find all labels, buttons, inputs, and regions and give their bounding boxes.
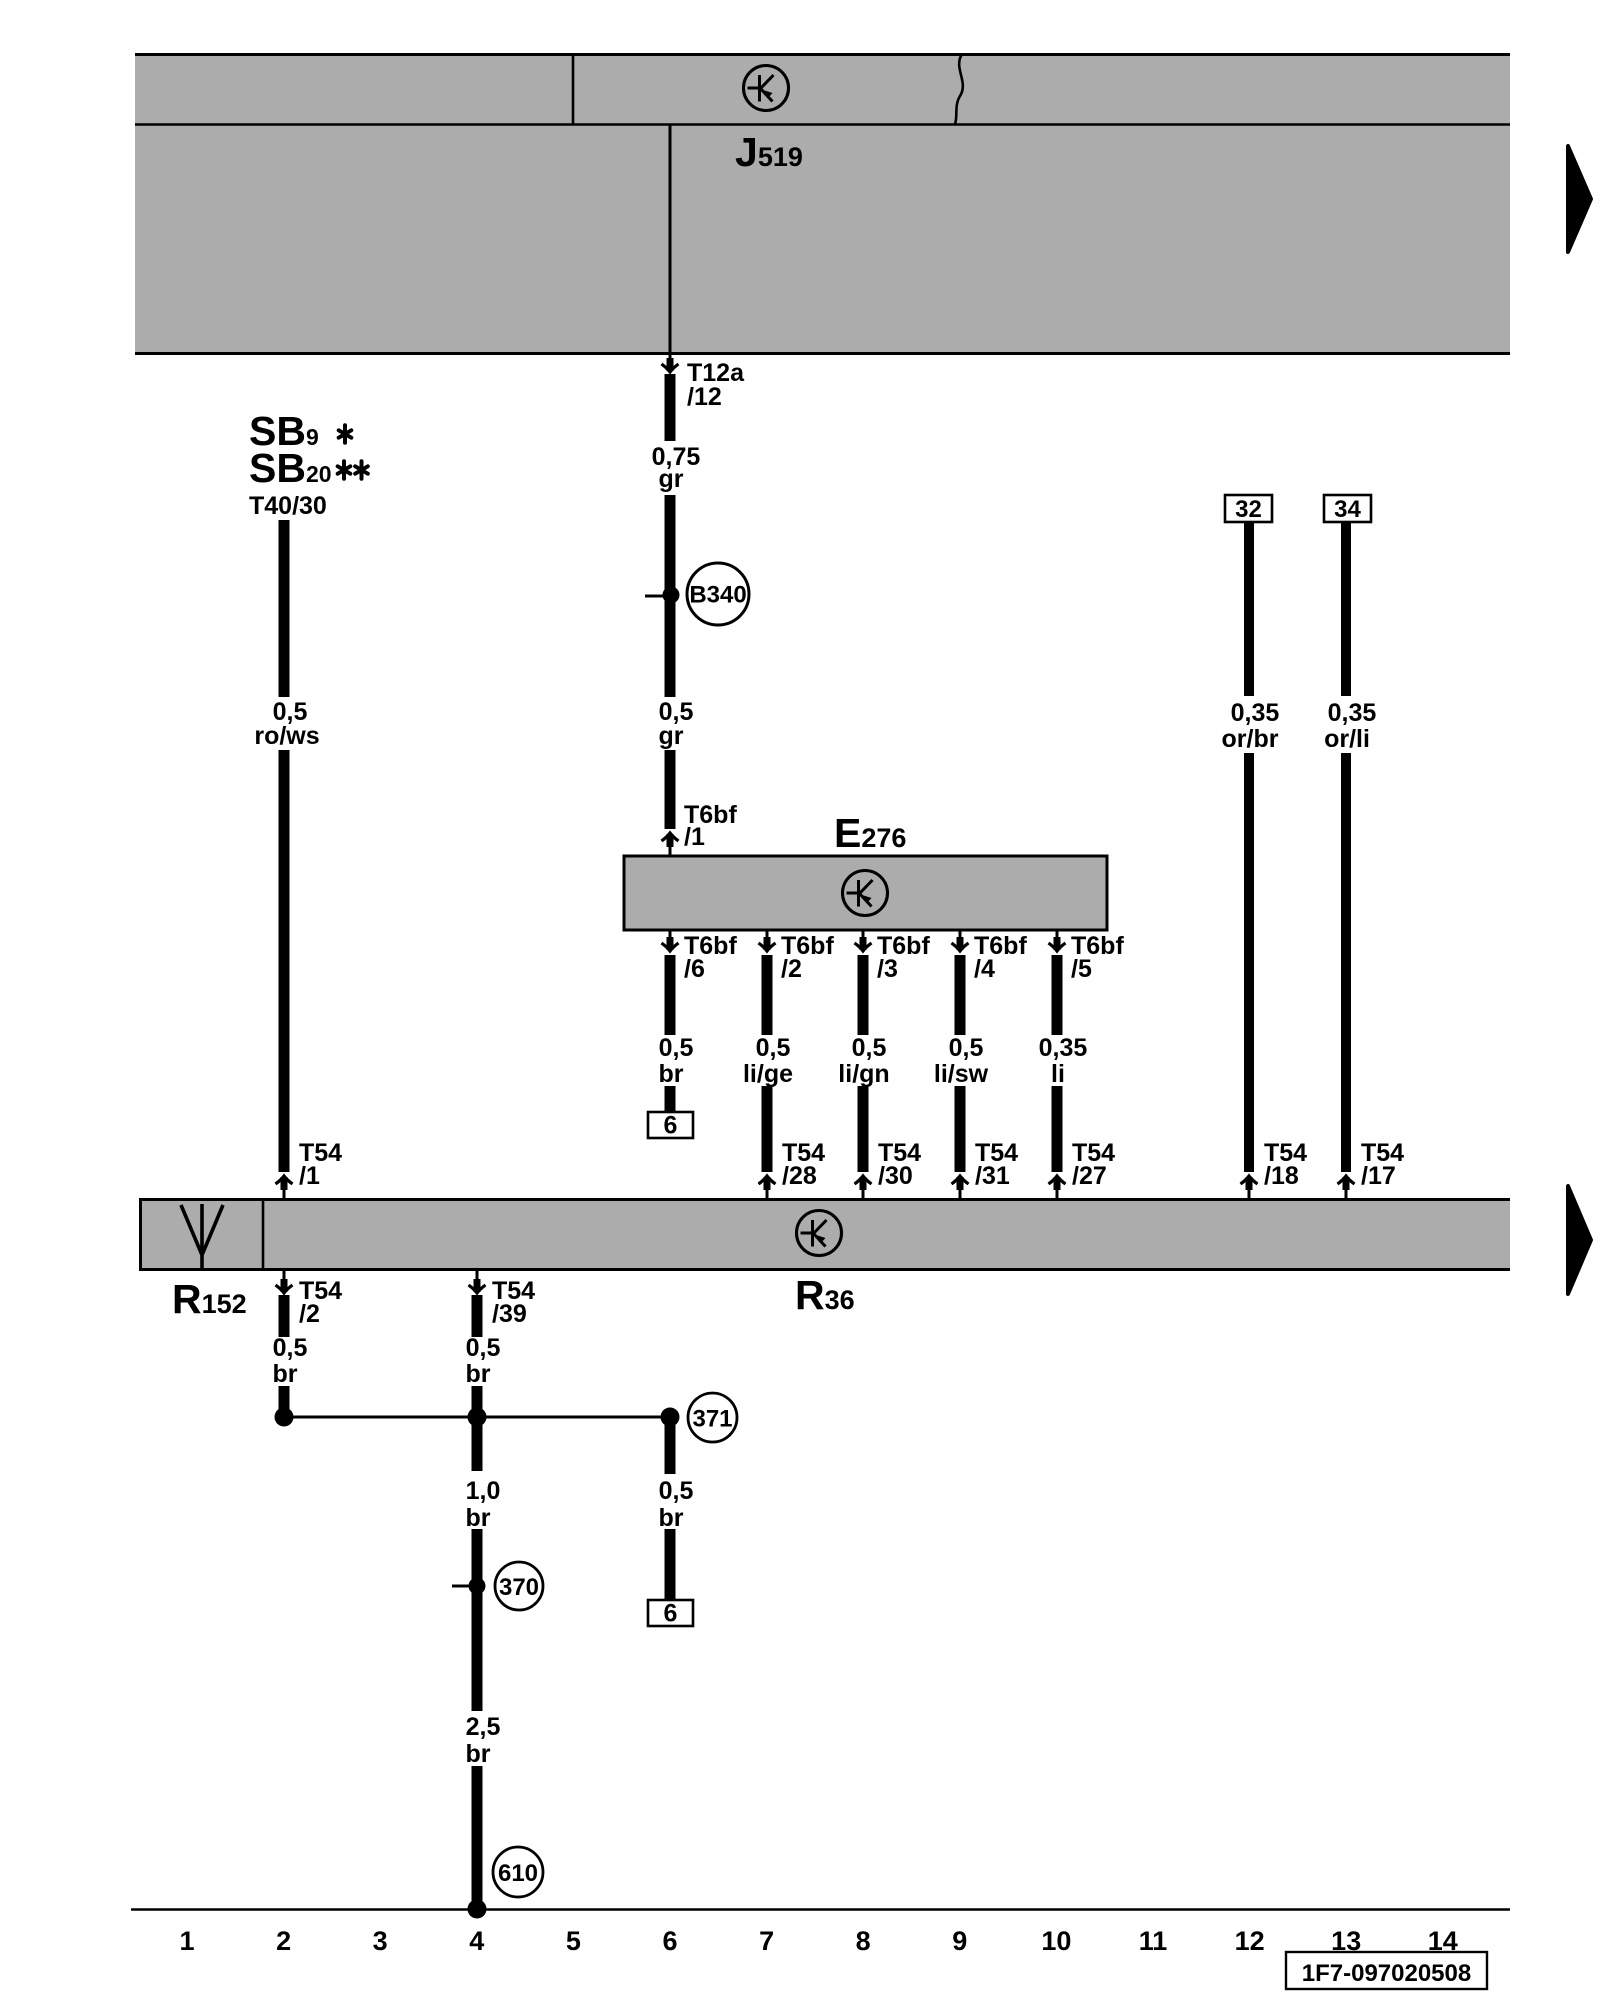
svg-text:li: li — [1051, 1060, 1065, 1088]
wire 0,5 br (right of 371, lower) — [665, 1529, 676, 1600]
pin T6bf/4 — [959, 930, 962, 938]
svg-text:li/sw: li/sw — [934, 1060, 989, 1088]
junction dot left — [275, 1408, 294, 1427]
svg-text:371: 371 — [692, 1406, 732, 1433]
svg-text:gr: gr — [659, 722, 684, 750]
svg-text:/4: /4 — [974, 955, 995, 983]
svg-text:0,5: 0,5 — [659, 1477, 694, 1505]
terminal 34 — [1324, 495, 1371, 522]
svg-text:6: 6 — [662, 1926, 677, 1956]
pin T6bf/5 — [1056, 930, 1059, 938]
right arrow (bottom) — [1568, 1186, 1591, 1294]
svg-text:3: 3 — [373, 1926, 388, 1956]
svg-text:7: 7 — [759, 1926, 774, 1956]
svg-text:6: 6 — [664, 1600, 678, 1628]
pin T54/39 (below R36) — [476, 1271, 479, 1281]
svg-text:2,5: 2,5 — [466, 1713, 501, 1741]
wire 0,5 li/sw — [955, 955, 966, 1035]
pin T6bf/1 (into E276) — [662, 833, 679, 847]
wire 0,35 li — [1052, 955, 1063, 1035]
wire 0,5 li/ge — [762, 955, 773, 1035]
svg-text:/31: /31 — [975, 1162, 1010, 1190]
svg-text:2: 2 — [276, 1926, 291, 1956]
wire 0,5 br (left, lower) — [279, 1386, 290, 1417]
pin T12a/12 — [662, 358, 679, 372]
svg-text:E276: E276 — [834, 810, 906, 856]
junction dot right — [661, 1408, 680, 1427]
svg-text:12: 12 — [1235, 1926, 1265, 1956]
wire 0,5 br (middle, upper) — [472, 1295, 483, 1337]
svg-text:10: 10 — [1041, 1926, 1071, 1956]
ground connection 610 — [493, 1847, 543, 1897]
wire 0,5 li/gn — [858, 955, 869, 1035]
junction dot on bottom line — [468, 1900, 487, 1919]
svg-text:br: br — [273, 1360, 298, 1388]
wire inside J519 from header to pin T12a — [669, 125, 672, 364]
svg-text:1F7-097020508: 1F7-097020508 — [1302, 1960, 1471, 1987]
svg-text:B340: B340 — [689, 582, 746, 609]
right arrow (top) — [1568, 146, 1591, 252]
svg-text:br: br — [466, 1740, 491, 1768]
svg-text:0,5: 0,5 — [949, 1034, 984, 1062]
svg-text:br: br — [466, 1360, 491, 1388]
control module J519 box — [135, 53, 1510, 355]
terminal 32 — [1225, 495, 1272, 522]
ground terminal 6 (lower) — [648, 1600, 693, 1626]
ground connection 370 — [495, 1562, 543, 1610]
svg-text:or/br: or/br — [1222, 725, 1279, 753]
pin T54/27 — [1049, 1176, 1066, 1190]
svg-text:/2: /2 — [299, 1300, 320, 1328]
svg-text:1,0: 1,0 — [466, 1477, 501, 1505]
wire 0,5 br (right of 371, upper) — [665, 1417, 676, 1474]
connection symbol (circle-K) in E276 — [843, 871, 888, 916]
wire 0,5 br (left, upper) — [279, 1295, 290, 1337]
svg-text:/18: /18 — [1264, 1162, 1299, 1190]
pin T6bf/3 — [862, 930, 865, 938]
wire 0,35 or/li (lower) — [1341, 753, 1351, 1172]
wire 0,5 br (middle, lower) — [472, 1386, 483, 1417]
svg-text:5: 5 — [566, 1926, 581, 1956]
wire 0,75 gr (upper segment) — [665, 374, 676, 441]
svg-text:/17: /17 — [1361, 1162, 1396, 1190]
svg-text:0,35: 0,35 — [1231, 699, 1280, 727]
pin T54/17 — [1338, 1176, 1355, 1190]
pin T54/1 (left column into R36) — [276, 1176, 293, 1190]
junction dot middle — [468, 1408, 487, 1427]
svg-text:br: br — [466, 1504, 491, 1532]
svg-text:ro/ws: ro/ws — [254, 722, 319, 750]
svg-text:/39: /39 — [492, 1300, 527, 1328]
pin T6bf/2 — [766, 930, 769, 938]
svg-text:T40/30: T40/30 — [249, 492, 327, 520]
svg-text:li/ge: li/ge — [743, 1060, 793, 1088]
break squiggle in J519 header — [955, 54, 963, 124]
connection symbol (circle-K) in R36 — [797, 1211, 842, 1256]
aerial amplifier R36 box — [139, 1198, 1510, 1271]
svg-text:0,5: 0,5 — [756, 1034, 791, 1062]
svg-text:0,35: 0,35 — [1039, 1034, 1088, 1062]
ground bus wire — [284, 1416, 670, 1419]
junction tick and dot at B340 — [645, 595, 666, 598]
pin T54/31 — [952, 1176, 969, 1190]
svg-text:SB20: SB20 — [249, 445, 332, 491]
svg-text:34: 34 — [1334, 496, 1361, 523]
svg-text:/2: /2 — [781, 955, 802, 983]
pin T54/28 — [759, 1176, 776, 1190]
wire 0,5 gr (middle segment) — [665, 495, 676, 697]
svg-text:0,5: 0,5 — [273, 1334, 308, 1362]
ground terminal 6 (upper) — [648, 1112, 693, 1138]
svg-text:/3: /3 — [877, 955, 898, 983]
svg-text:R36: R36 — [795, 1272, 855, 1318]
wire 0,5 ro/ws (lower segment) — [279, 750, 290, 1172]
svg-text:gr: gr — [659, 465, 684, 493]
svg-text:4: 4 — [469, 1926, 484, 1956]
svg-text:/30: /30 — [878, 1162, 913, 1190]
junction tick and dot at 370 — [452, 1585, 471, 1588]
svg-text:11: 11 — [1139, 1926, 1168, 1956]
svg-text:8: 8 — [856, 1926, 871, 1956]
svg-text:/6: /6 — [684, 955, 705, 983]
pin T54/2 (below R36) — [283, 1271, 286, 1281]
wire 2,5 br (lower) — [472, 1766, 483, 1908]
ground connection 371 — [688, 1393, 737, 1442]
svg-text:0,35: 0,35 — [1328, 699, 1377, 727]
pin T54/18 — [1241, 1176, 1258, 1190]
svg-text:R152: R152 — [172, 1276, 247, 1322]
svg-text:0,5: 0,5 — [659, 1034, 694, 1062]
svg-text:1: 1 — [179, 1926, 194, 1956]
connector designation B340 — [687, 563, 749, 625]
wire 0,35 or/br (lower) — [1244, 753, 1254, 1172]
svg-text:br: br — [659, 1060, 684, 1088]
svg-text:/1: /1 — [684, 823, 705, 851]
svg-text:li/gn: li/gn — [838, 1060, 889, 1088]
antenna symbol R152 — [181, 1204, 223, 1270]
svg-text:0,5: 0,5 — [852, 1034, 887, 1062]
connection symbol (circle-K) in J519 — [744, 66, 789, 111]
svg-text:/28: /28 — [782, 1162, 817, 1190]
wire 1,0 br (upper) — [472, 1417, 483, 1471]
wire 0,5 ro/ws (upper segment) — [279, 520, 290, 697]
svg-text:0,5: 0,5 — [466, 1334, 501, 1362]
svg-text:370: 370 — [499, 1574, 539, 1601]
svg-text:/27: /27 — [1072, 1162, 1107, 1190]
diagram number box 1F7-097020508 — [1286, 1952, 1487, 1989]
wire 0,35 or/br (upper) — [1244, 522, 1254, 696]
pin T54/30 — [855, 1176, 872, 1190]
svg-text:br: br — [659, 1504, 684, 1532]
svg-text:9: 9 — [952, 1926, 967, 1956]
bottom reference line — [131, 1908, 1510, 1911]
svg-text:610: 610 — [498, 1860, 538, 1887]
svg-text:/5: /5 — [1071, 955, 1092, 983]
wire 0,35 or/li (upper) — [1341, 522, 1351, 696]
svg-text:6: 6 — [664, 1112, 678, 1140]
svg-text:/1: /1 — [299, 1162, 320, 1190]
svg-text:32: 32 — [1235, 496, 1262, 523]
switch E276 box — [624, 856, 1107, 930]
pin T6bf/6 — [669, 930, 672, 938]
svg-text:/12: /12 — [687, 383, 722, 411]
svg-text:or/li: or/li — [1324, 725, 1370, 753]
wire 1,0 br (lower) / 2,5 br — [472, 1529, 483, 1711]
wire 0,5 br (from T6bf/6) — [665, 955, 676, 1035]
